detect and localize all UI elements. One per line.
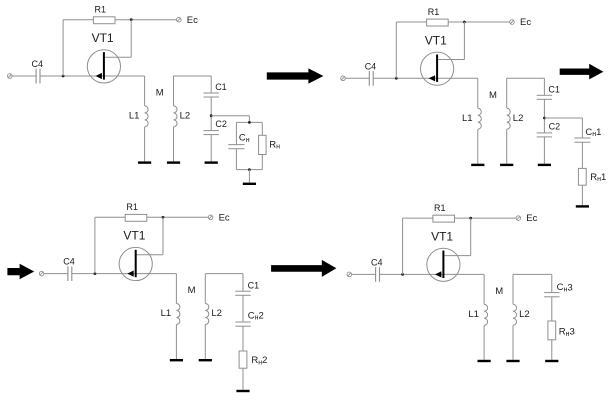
wire junction to load network [211,115,249,117]
wire Cn branch lower [235,149,237,170]
ground [205,161,218,163]
ground [199,359,212,361]
wire L2 wire to load corner [551,273,552,275]
node: base/bias junction [395,77,398,80]
wire input to C4 [345,77,369,79]
node: collector junction on supply wire [162,216,165,219]
ground [500,164,513,166]
capacitor C1 [537,95,552,99]
svg-text:R1: R1 [126,202,138,212]
svg-text:C4: C4 [32,59,44,69]
resistor Rн (load) [259,135,267,154]
wire collector horizontal [105,56,132,58]
capacitor C2 [537,133,552,137]
svg-text:C4: C4 [365,61,377,71]
resistor Rн1 (load) [578,168,586,185]
svg-text:C1: C1 [215,82,227,92]
resistor R1 [433,215,455,222]
ground [138,161,151,163]
svg-text:L2: L2 [211,308,222,319]
wire R1 to Ec terminal [147,216,208,218]
node: base/bias junction [62,75,65,78]
wire collector horizontal [444,255,471,257]
wire Cн3 to Rн3 [551,297,553,321]
flow arrow 3 (bottom left edge) [7,264,34,279]
svg-text:VT1: VT1 [123,229,145,243]
terminal Ec [516,216,521,221]
ground [471,164,484,166]
capacitor C4 [68,266,72,281]
wire collector riser [162,217,164,255]
svg-text:Ec: Ec [520,17,531,28]
wire R1 to Ec terminal [448,21,509,23]
wire Cн1 to Rн1 [581,142,583,168]
wire collector riser [470,218,472,256]
capacitor C4 [376,267,380,282]
node: collector junction on supply wire [463,21,466,24]
svg-text:M: M [156,88,164,99]
wire C4 to transistor base (through L1 corner) [380,273,485,275]
circuit 1: input terminal [8,74,13,79]
transistor VT1 [421,52,454,85]
wire top left to R1 [63,19,93,21]
svg-text:R1: R1 [95,5,107,15]
node: base/bias junction [401,273,404,276]
wire load riser [248,116,250,123]
svg-text:C4: C4 [63,257,75,267]
wire Rn branch lower [261,155,263,170]
svg-text:VT1: VT1 [425,33,447,47]
inductor L2 [205,274,209,359]
inductor L2 [513,274,517,359]
ground [478,360,491,362]
node: base/bias junction [94,272,97,275]
ground [538,164,551,166]
ground [243,183,256,185]
wire C4 to transistor base (through L1 corner) [72,273,177,275]
node: C1-C2 junction [543,117,546,120]
wire Rн2 to ground [242,368,244,390]
inductor L1 [176,274,180,359]
wire load line down to Cн3 [551,274,553,292]
circuit 3: input terminal [39,271,44,276]
resistor Rн2 (load) [239,351,247,368]
wire top left to R1 [403,217,433,219]
wire riser to R1 left [402,218,404,274]
svg-text:L2: L2 [519,309,530,320]
transistor VT1 [427,248,460,281]
ground [576,205,589,207]
resistor R1 [93,17,115,24]
wire top left to R1 [95,216,125,218]
svg-text:Ec: Ec [219,212,230,223]
wire L2 top to output branch [513,273,551,275]
wire Cн2 to Rн2 [242,326,244,351]
inductor L2 [507,78,511,163]
svg-text:R1: R1 [434,203,446,213]
transistor VT1 [119,247,152,280]
capacitor C1 [204,93,219,97]
wire L2 top to output branch [205,273,243,275]
svg-text:L1: L1 [129,111,140,122]
node: load top [248,121,251,124]
svg-text:C1: C1 [248,281,260,291]
circuit 4: input terminal [347,272,352,277]
ground [545,360,558,362]
svg-text:C2: C2 [215,119,227,129]
inductor L1 [145,76,149,161]
svg-text:L2: L2 [513,113,524,124]
wire load top rail [236,121,262,123]
wire collector riser [130,20,132,58]
flow arrow 4 (bottom, between circuits) [271,260,336,277]
capacitor C4 [36,69,40,84]
ground [167,161,180,163]
svg-text:M: M [489,90,497,101]
wire input to C4 [12,75,36,77]
wire load to ground [248,170,250,183]
node: C1-C2 junction [210,114,213,117]
svg-text:C2: C2 [549,122,561,132]
capacitor C1 [235,291,250,295]
svg-text:M: M [495,286,503,297]
wire Cn branch upper [235,122,237,144]
svg-text:M: M [188,285,196,296]
svg-text:VT1: VT1 [431,229,453,243]
resistor R1 [125,214,147,221]
wire L2 top to output branch [174,75,212,77]
wire top left to R1 [396,21,426,23]
svg-text:C4: C4 [371,257,383,267]
wire C4 to transistor base (through L1 corner) [373,77,478,79]
svg-text:L2: L2 [180,111,191,122]
wire L2 top to output branch [507,77,545,79]
inductor L1 [478,78,482,163]
wire input to C4 [44,273,68,275]
wire R1 to Ec terminal [115,19,176,21]
wire collector riser [463,22,465,60]
ground [236,390,249,392]
wire collector horizontal [136,254,163,256]
wire Rн1 to ground [581,185,583,205]
wire tank line to C1 [543,78,545,95]
svg-text:R1: R1 [428,7,440,17]
wire load bottom rail [236,169,262,171]
wire riser to R1 left [94,217,96,273]
capacitor C4 [369,71,373,86]
node: collector junction on supply wire [469,217,472,220]
wire input to C4 [352,273,376,275]
node: collector junction on supply wire [130,18,133,21]
wire riser to R1 left [395,22,397,78]
svg-text:L1: L1 [161,308,172,319]
wire collector horizontal [438,59,465,61]
wire tank line down to C1 [242,274,244,292]
svg-text:Ec: Ec [187,15,198,26]
circuit 2: input terminal [341,76,346,81]
flow arrow 2 (top right edge) [560,64,604,80]
inductor L2 [174,76,178,161]
wire tank line to C1 [210,76,212,93]
wire C4 to transistor base (through L1 corner) [40,75,145,77]
terminal Ec [208,215,213,220]
svg-text:L1: L1 [462,113,473,124]
svg-text:C1: C1 [548,85,560,95]
wire R1 to Ec terminal [455,217,516,219]
wire C1 to C2 [543,99,545,133]
flow arrow 1 (top, between circuits) [267,68,324,83]
terminal Ec [177,17,182,22]
wire C2 to ground [210,135,212,162]
ground [170,359,183,361]
terminal Ec [510,20,515,25]
wire load branch down to Cн1 [581,118,583,138]
resistor R1 [427,19,449,26]
resistor Rн3 (load) [548,321,556,340]
transistor VT1 [87,50,120,83]
svg-text:VT1: VT1 [92,31,114,45]
wire C1 to Cн2 [242,295,244,322]
capacitor C2 [204,131,219,135]
capacitor Cн3 (load) [544,293,559,297]
wire Rн3 to ground [551,340,553,360]
capacitor Cн1 (load) [574,138,590,142]
node: load bottom [248,168,251,171]
capacitor Cн (load) [228,145,244,149]
svg-text:L1: L1 [468,309,479,320]
wire C1 to C2 [210,97,212,131]
wire Rn branch upper [261,122,263,135]
ground [506,360,519,362]
wire riser to R1 left [62,20,64,76]
inductor L1 [484,274,488,359]
svg-text:Ec: Ec [526,213,537,224]
wire C2 to ground [543,137,545,164]
wire junction to load branch [544,117,582,119]
capacitor Cн2 (load) [235,322,250,326]
